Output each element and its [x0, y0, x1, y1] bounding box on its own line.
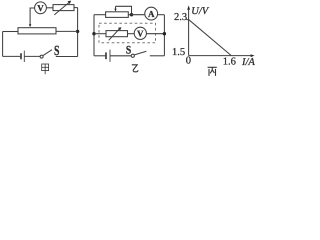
slider arrow of R3 — [115, 6, 117, 9]
wire left rail of jia — [2, 32, 4, 57]
graph U axis — [188, 9, 190, 56]
label yi (CJK drawn) — [132, 65, 138, 72]
svg-text:0: 0 — [186, 55, 191, 66]
wire left rail into box — [94, 33, 106, 35]
battery cell long plate yi — [109, 50, 111, 62]
wire right rail of yi — [163, 15, 165, 56]
wire R2 to right rail — [74, 7, 78, 9]
slide rheostat R3 body — [106, 12, 129, 18]
wire left rail of yi — [93, 15, 95, 56]
wire right rail of jia — [77, 8, 79, 57]
wire battery to switch — [24, 55, 40, 57]
rheostat R4 arrow — [109, 29, 120, 40]
wire R4 to voltmeter V2 — [128, 33, 135, 35]
rheostat R2 arrow — [54, 3, 69, 15]
switch S lever — [43, 50, 52, 56]
wire switch to right rail — [56, 56, 78, 58]
battery cell long plate — [23, 51, 25, 62]
slider arrow onto rheostat R1 — [29, 24, 32, 27]
label jia (CJK drawn) — [42, 64, 49, 74]
wire slider link to right terminal — [116, 6, 132, 14]
ammeter A — [145, 7, 158, 20]
svg-text:A: A — [148, 9, 155, 19]
svg-text:1.5: 1.5 — [172, 47, 185, 58]
switch lever yi — [134, 51, 146, 55]
node dot right rail of yi — [163, 32, 166, 35]
wire R3 to ammeter — [128, 14, 145, 16]
wire top-left corner of circuit yi — [94, 14, 106, 16]
wire bottom left of jia — [3, 55, 21, 57]
svg-text:U/V: U/V — [191, 6, 210, 17]
wire ammeter to right rail — [158, 14, 165, 16]
wire battery to switch yi — [110, 55, 131, 57]
rheostat R4 body — [106, 31, 128, 37]
switch pivot yi — [131, 54, 134, 57]
wire rheostat R1 to right rail — [56, 30, 78, 32]
svg-text:V: V — [137, 29, 144, 39]
switch S pivot — [40, 55, 43, 58]
wire V2 to right rail — [146, 33, 164, 35]
wire bottom left of yi — [94, 55, 106, 57]
dashed black box — [99, 23, 156, 43]
battery cell short plate — [20, 53, 22, 59]
tick at 2.3 — [186, 19, 188, 21]
label bing (CJK drawn) — [208, 67, 217, 76]
voltmeter V1 — [35, 2, 47, 14]
node junction dot right rail — [76, 30, 79, 33]
battery cell short plate yi — [105, 52, 107, 59]
node dot left rail — [92, 32, 95, 35]
U-I line — [189, 20, 231, 56]
svg-text:V: V — [37, 3, 44, 13]
svg-text:I/A: I/A — [241, 57, 255, 68]
wire top-left corner of circuit jia — [30, 8, 34, 25]
rheostat R2 body — [53, 5, 74, 11]
voltmeter V2 — [134, 27, 146, 39]
rheostat R1 body (slide rheostat) — [18, 28, 56, 34]
graph I axis — [189, 55, 252, 57]
node dot slider link — [130, 13, 133, 16]
svg-text:2.3: 2.3 — [174, 12, 187, 23]
svg-text:S: S — [126, 45, 131, 57]
wire voltmeter to rheostat R2 — [46, 7, 53, 9]
wire switch to right rail yi — [150, 55, 165, 57]
svg-text:1.6: 1.6 — [223, 57, 236, 68]
wire left hook to R1 — [3, 31, 18, 33]
